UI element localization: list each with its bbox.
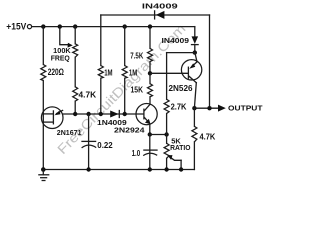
node rail/7.5K <box>148 24 152 28</box>
svg-text:4.7K: 4.7K <box>79 90 97 100</box>
wire 220 column upper <box>42 27 44 65</box>
node emitter/link <box>148 132 152 136</box>
node B/0.22 <box>86 112 90 116</box>
ground <box>39 170 49 181</box>
wire Q3 emitter to node <box>195 53 197 62</box>
node B wire (UJT emitter bus) <box>63 113 144 115</box>
node B/1M-1 <box>99 112 103 116</box>
wire Q3 collector to output node <box>194 83 196 109</box>
wire 5K to bottom <box>166 158 168 169</box>
wire 7.5K to base node <box>149 62 151 74</box>
node D2/emitter <box>193 50 197 54</box>
wire 4.7K right lower <box>193 142 195 170</box>
node output column <box>207 106 211 110</box>
wire 100K column top <box>74 27 76 44</box>
diode D1 1N4009 (top, pointing left) <box>156 11 165 19</box>
wire node to 2.7K column <box>167 52 195 54</box>
node rail/100K <box>73 24 77 28</box>
wire 5K wiper <box>172 158 182 160</box>
resistor R8 2.7K <box>164 99 169 113</box>
svg-text:2N1671: 2N1671 <box>57 130 82 137</box>
wire 7.5K column upper <box>149 27 151 49</box>
wire wiper down <box>180 160 182 169</box>
arrowhead wiper 5K <box>167 155 172 160</box>
resistor R1 220ohm <box>41 65 46 81</box>
wire top (diode line) <box>101 14 210 16</box>
node rail/220 <box>41 24 45 28</box>
resistor R4 1M <box>98 66 103 79</box>
resistor R3 4.7K <box>73 87 78 101</box>
wire 4.7K to node B <box>74 101 76 114</box>
wire 2.7K column upper <box>166 53 168 100</box>
svg-text:IN4009: IN4009 <box>142 2 178 11</box>
svg-text:2N526: 2N526 <box>169 84 194 93</box>
wire D2 column top <box>194 27 196 37</box>
wire link emitter to 5K <box>150 134 167 136</box>
wire Q2 emitter <box>149 124 151 135</box>
node rail/1M-2 <box>123 24 127 28</box>
wire base Q3 <box>150 72 188 74</box>
wire 15K to Q2 collector <box>149 97 151 105</box>
transistor Q2 2N2924 <box>136 104 157 125</box>
arrowhead output <box>218 105 226 112</box>
svg-text:IN4009: IN4009 <box>162 36 190 45</box>
resistor R10 4.7K <box>192 126 197 141</box>
node ground <box>41 167 46 172</box>
svg-text:4.7K: 4.7K <box>200 132 217 142</box>
node rail/wiper <box>58 24 62 28</box>
node bottom/wiper <box>179 167 183 171</box>
svg-text:1M: 1M <box>104 67 112 77</box>
wire 100K to 4.7K <box>74 57 76 87</box>
svg-text:1M: 1M <box>129 67 137 77</box>
capacitor C1 0.22 <box>88 114 90 170</box>
svg-text:OUTPUT: OUTPUT <box>228 104 263 113</box>
arrowhead wiper 100K <box>68 43 73 48</box>
wire 1M-2 column upper <box>124 27 126 66</box>
wire emitter to cap 1.0 <box>149 135 151 170</box>
resistor R5 1M <box>122 66 127 79</box>
svg-text:15K: 15K <box>131 85 144 94</box>
resistor R2 100K (pot body) <box>73 44 78 57</box>
svg-text:100K: 100K <box>53 48 70 55</box>
wire 1M-1 column (from top wire, crossing rail) <box>100 15 102 66</box>
wire base node to 15K <box>149 73 151 83</box>
wire 1M-2 lower <box>124 78 126 114</box>
node bottom/cap1.0 <box>148 167 152 171</box>
wire 4.7K right column upper <box>193 108 195 126</box>
resistor R7 15K <box>148 84 153 97</box>
svg-text:2N2924: 2N2924 <box>114 128 145 135</box>
node collector/output <box>192 106 196 110</box>
wire 100K wiper <box>60 27 69 45</box>
wire bottom (ground bus) <box>43 169 194 171</box>
svg-text:+15V: +15V <box>6 22 26 32</box>
svg-text:7.5K: 7.5K <box>130 52 143 61</box>
terminal +15V <box>27 25 31 29</box>
resistor R9 5K (pot body) <box>164 143 169 158</box>
diode D2 1N4009 (vertical, pointing down) <box>192 36 199 44</box>
resistor R6 7.5K <box>148 48 153 61</box>
node bottom/5K <box>164 167 168 171</box>
wire 2.7K to link node <box>166 114 168 144</box>
svg-text:1.0: 1.0 <box>132 148 141 158</box>
node B/4.7K <box>73 112 77 116</box>
node link/5K <box>164 132 168 136</box>
svg-text:220Ω: 220Ω <box>48 67 64 78</box>
wire 1M-1 lower <box>100 78 102 114</box>
transistor Q3 2N526 <box>181 60 201 83</box>
node base Q3 <box>148 71 152 75</box>
wire output <box>194 107 218 109</box>
wire 220 column lower (through Q1 to ground) <box>42 81 44 170</box>
node bottom/0.22 <box>86 167 90 171</box>
diode D3 1N4009 (pointing right) <box>110 111 118 118</box>
svg-text:0.22: 0.22 <box>97 140 113 150</box>
capacitor C2 1.0 <box>144 149 157 151</box>
wire right column from top wire to output node <box>209 15 211 108</box>
transistor Q1 2N1671 (UJT) <box>41 107 63 129</box>
svg-text:2.7K: 2.7K <box>171 102 188 112</box>
wire D2 to node <box>194 45 196 53</box>
svg-text:FREQ: FREQ <box>51 55 71 62</box>
svg-text:1N4009: 1N4009 <box>97 120 127 127</box>
wire +15V rail <box>32 26 195 28</box>
node B/1M-2 <box>123 112 127 116</box>
svg-text:RATIO: RATIO <box>170 145 191 152</box>
